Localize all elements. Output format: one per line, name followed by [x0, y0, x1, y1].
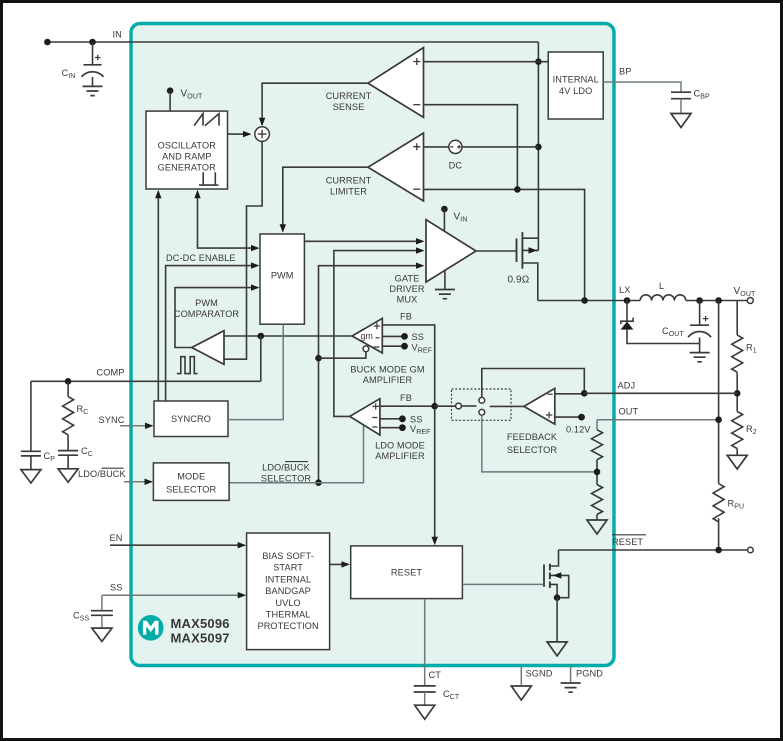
op-amp LDO mode amplifier — [350, 399, 380, 435]
node 0.12V terminal — [578, 414, 585, 421]
wire RC to CC — [67, 435, 69, 451]
wire switch lower throw to divider tap — [482, 415, 597, 472]
svg-text:LDO/BUCK: LDO/BUCK — [78, 469, 127, 479]
svg-text:CURRENT: CURRENT — [326, 91, 372, 101]
wire COMP riser — [260, 336, 262, 381]
terminal VOUT — [747, 298, 753, 304]
arrow into PWM top — [280, 224, 286, 233]
svg-text:LDO MODE: LDO MODE — [375, 441, 425, 451]
svg-text:RESET: RESET — [391, 568, 422, 578]
node CS-/CL- junction — [514, 186, 521, 193]
svg-text:THERMAL: THERMAL — [266, 610, 311, 620]
svg-text:0.12V: 0.12V — [566, 425, 591, 435]
wire CIN stem — [92, 42, 94, 64]
wire adder output to PWM comparator — [224, 141, 262, 359]
svg-text:SS: SS — [110, 583, 122, 593]
wire divider middle — [596, 460, 598, 485]
resistor R1 — [732, 335, 743, 372]
capacitor CP — [21, 451, 55, 470]
wire IN vertical to FET drain — [536, 42, 538, 250]
node SS terminal ldo — [399, 415, 406, 422]
wire RPU to RESET line — [718, 518, 720, 550]
block SYNCRO — [154, 401, 228, 437]
ground CC triangle — [58, 469, 78, 482]
svg-text:SS: SS — [412, 332, 424, 342]
node ADJ/R1/R2 tap — [734, 390, 741, 397]
svg-text:UVLO: UVLO — [275, 598, 300, 608]
svg-text:AMPLIFIER: AMPLIFIER — [375, 451, 425, 461]
adder node — [255, 127, 270, 142]
ground CSS triangle — [92, 628, 112, 641]
svg-text:PGND: PGND — [576, 669, 603, 679]
diode D1 schottky — [621, 318, 700, 344]
block RESET — [351, 546, 463, 599]
arrow PWM input 2 — [251, 262, 260, 268]
block oscillator and ramp generator — [146, 111, 228, 189]
icon pulse waveform at comparator — [177, 357, 198, 374]
wire OSC output to adder — [228, 133, 250, 135]
arrow into oscillator 2 — [194, 190, 200, 199]
circle gm enable bubble — [363, 346, 369, 352]
wire SS pin — [102, 595, 242, 611]
block MODE SELECTOR — [153, 463, 229, 501]
arrow into RESET left — [342, 561, 351, 567]
svg-text:MUX: MUX — [397, 295, 418, 305]
svg-text:SENSE: SENSE — [333, 102, 365, 112]
svg-text:START: START — [273, 563, 303, 573]
wire LDO SS stub — [380, 418, 403, 420]
wire diode stem — [626, 301, 628, 322]
arrow into adder top — [259, 118, 265, 127]
capacitor COUT — [662, 301, 711, 353]
svg-text:LIMITER: LIMITER — [330, 187, 367, 197]
wire LDO FB input — [380, 405, 435, 407]
node IN/DC junction — [535, 144, 542, 151]
wire feedback selector output — [490, 405, 524, 407]
ground SGND triangle — [511, 686, 531, 700]
IC body MAX5096/MAX5097 — [131, 24, 614, 666]
wire current limiter - input — [424, 189, 585, 300]
wire CT pin — [424, 599, 426, 686]
wire FBsel plus input to 0.12V — [555, 416, 582, 418]
ground COUT — [690, 353, 710, 362]
op-amp feedback selector — [524, 388, 555, 424]
svg-text:OUT: OUT — [619, 407, 639, 417]
svg-text:SYNC: SYNC — [99, 415, 125, 425]
capacitor CC — [58, 446, 93, 469]
svg-text:BANDGAP: BANDGAP — [265, 586, 311, 596]
wire gm FB input — [382, 325, 434, 543]
svg-text:PWM: PWM — [271, 271, 294, 281]
wire DC-DC enable — [166, 266, 256, 401]
wire mux ground stem — [444, 271, 446, 290]
svg-text:FB: FB — [400, 312, 412, 322]
arrow PWM input 1 — [251, 245, 260, 251]
wire R2 to ground — [736, 449, 738, 456]
arrow EN into BIAS — [238, 542, 247, 548]
source DC offset — [449, 140, 463, 170]
block bias soft-start — [247, 533, 330, 650]
svg-text:FEEDBACK: FEEDBACK — [507, 432, 558, 442]
wire COMP line — [31, 380, 261, 382]
svg-text:SELECTOR: SELECTOR — [261, 474, 311, 484]
wire bias to reset — [330, 563, 346, 565]
ground R2 triangle — [727, 455, 747, 469]
ground CIN — [83, 86, 103, 95]
capacitor CCT — [414, 686, 460, 705]
svg-text:INTERNAL: INTERNAL — [265, 574, 311, 584]
wire PWM comparator output to PWM — [175, 288, 256, 348]
wire current limiter + to DC source — [424, 146, 449, 148]
wire current limiter output to PWM — [283, 167, 368, 228]
node ADJ internal junction — [581, 390, 588, 397]
wire DC source to IN vertical — [462, 146, 538, 148]
svg-text:SS: SS — [410, 415, 422, 425]
wire Q2 source to ground — [556, 598, 558, 642]
op-amp current limiter — [368, 133, 424, 201]
node FB junction — [431, 403, 438, 410]
wire OUT line — [597, 419, 719, 421]
wire SGND stub — [520, 666, 522, 685]
node LX/CL junction — [581, 297, 588, 304]
svg-text:MAX5096: MAX5096 — [171, 616, 230, 631]
transistor Q1 power MOSFET 0.9ohm — [517, 232, 539, 300]
terminal RESET — [748, 547, 754, 553]
arrow into SYNCRO — [145, 423, 154, 429]
wire current sense - input — [424, 105, 518, 190]
node IN left terminal — [44, 39, 51, 46]
node COMP junction — [65, 378, 72, 385]
arrow into adder left — [243, 131, 252, 137]
arrow into MODE SELECTOR — [145, 479, 154, 485]
svg-text:COMP: COMP — [97, 368, 125, 378]
comparator PWM — [192, 331, 224, 365]
ground CP triangle — [21, 470, 41, 483]
svg-text:LX: LX — [619, 285, 630, 295]
resistor divider lower — [592, 485, 603, 515]
node RESET/RPU junction — [715, 547, 722, 554]
wire FBsel minus input — [555, 393, 585, 395]
wire mode select riser to mux — [319, 266, 421, 483]
wire gm enable stub — [319, 352, 366, 359]
wire mux output to FET gate — [476, 250, 516, 252]
wire current sense output to adder — [262, 83, 368, 125]
svg-text:SGND: SGND — [526, 669, 553, 679]
wire CP branch — [30, 381, 32, 451]
svg-text:CT: CT — [429, 670, 442, 680]
wire LDO amp output to mux — [334, 251, 421, 417]
node VIN dot — [441, 206, 448, 213]
block PWM — [260, 234, 304, 324]
node mode/gm-enable junction — [315, 355, 322, 362]
wire LX line — [538, 300, 748, 302]
op-amp current sense — [368, 48, 424, 118]
wire LDO VREF stub — [380, 427, 403, 429]
arrow PWM input 3 — [251, 284, 260, 290]
wire VOUT stem — [169, 91, 171, 111]
block internal 4V LDO — [548, 52, 603, 119]
svg-text:SELECTOR: SELECTOR — [507, 445, 557, 455]
svg-text:GENERATOR: GENERATOR — [158, 163, 217, 173]
node SS terminal buck — [401, 333, 408, 340]
wire BP pin — [603, 82, 681, 92]
label LDO/BUCK pin — [78, 468, 127, 479]
wire gm VREF stub — [382, 345, 404, 347]
svg-text:FB: FB — [400, 393, 412, 403]
wire EN pin — [110, 544, 242, 546]
label RESET pin — [612, 535, 646, 547]
wire gm output / comparator + input — [224, 335, 352, 337]
node OUT junction — [715, 416, 722, 423]
resistor RC — [63, 397, 74, 435]
svg-text:MAX5097: MAX5097 — [171, 630, 230, 645]
svg-text:DRIVER: DRIVER — [389, 284, 425, 294]
wire RESET line — [559, 549, 748, 551]
wire OSC input 2 / PWM input 1 — [198, 193, 256, 249]
label LDO/BUCK SELECTOR internal — [261, 462, 311, 484]
svg-text:gm: gm — [361, 331, 373, 341]
transistor Q2 reset MOSFET — [544, 550, 569, 598]
node VOUT dot at oscillator — [167, 87, 174, 94]
wire SYNCRO output to PWM bottom — [228, 324, 283, 419]
svg-text:PWM: PWM — [195, 298, 218, 308]
wire current sense + input — [424, 61, 539, 63]
wire ADJ line — [584, 392, 737, 394]
svg-text:INTERNAL: INTERNAL — [553, 75, 599, 85]
svg-text:OSCILLATOR: OSCILLATOR — [158, 141, 217, 151]
svg-text:0.9Ω: 0.9Ω — [508, 275, 530, 286]
wire internal divider from OUT — [596, 420, 598, 430]
svg-text:CURRENT: CURRENT — [326, 176, 372, 186]
capacitor CSS — [73, 611, 113, 629]
svg-text:DC-DC ENABLE: DC-DC ENABLE — [166, 253, 236, 263]
icon sawtooth waveform — [194, 114, 219, 126]
op-amp gate driver mux — [426, 220, 476, 282]
arrow SS into BIAS — [238, 592, 247, 598]
svg-text:SYNCRO: SYNCRO — [171, 414, 211, 424]
resistor RPU — [713, 484, 724, 522]
logo Maxim — [138, 615, 164, 641]
ground gate driver mux — [435, 290, 455, 299]
svg-text:LDO/BUCK: LDO/BUCK — [262, 463, 311, 473]
resistor R2 — [732, 412, 743, 449]
switch feedback selector — [435, 389, 511, 420]
arrow mux input 3 — [416, 263, 425, 269]
wire gm SS stub — [382, 335, 404, 337]
svg-text:BP: BP — [619, 67, 631, 77]
svg-text:BIAS SOFT-: BIAS SOFT- — [262, 551, 314, 561]
wire SYNC pin — [120, 425, 149, 427]
node Q2 source junction — [554, 594, 561, 601]
wire to internal LDO — [538, 61, 548, 63]
node mode line junction — [315, 479, 322, 486]
resistor divider upper — [592, 430, 603, 460]
arrow FB into RESET — [432, 537, 438, 546]
capacitor CIN — [62, 55, 104, 87]
wire RESET output to Q2 gate — [462, 583, 543, 585]
wire VOUT rail to OUT and RPU — [718, 301, 720, 484]
capacitor CBP — [671, 89, 710, 114]
svg-text:SELECTOR: SELECTOR — [166, 485, 216, 495]
wire VIN stem — [443, 209, 445, 231]
svg-text:4V LDO: 4V LDO — [559, 86, 592, 96]
inductor L — [640, 295, 686, 301]
wire R1 to ADJ tap — [736, 372, 738, 411]
node VREF terminal buck — [401, 343, 408, 350]
node divider tap — [594, 469, 601, 476]
node COMP vertical junction — [258, 333, 265, 340]
ground divider triangle — [587, 520, 607, 534]
arrow mux input 2 — [416, 247, 425, 253]
svg-text:COMPARATOR: COMPARATOR — [174, 309, 240, 319]
op-amp buck mode gm amplifier — [352, 318, 382, 353]
svg-text:BUCK MODE GM: BUCK MODE GM — [350, 365, 424, 375]
wire switch upper throw to ADJ — [482, 369, 585, 398]
ground CCT triangle — [415, 705, 435, 719]
wire IN rail — [47, 41, 538, 43]
node diode junction — [624, 297, 631, 304]
svg-text:EN: EN — [110, 533, 123, 543]
svg-text:AND RAMP: AND RAMP — [162, 152, 211, 162]
ground CBP triangle — [671, 114, 691, 128]
svg-text:GATE: GATE — [395, 274, 420, 284]
node VREF terminal ldo — [399, 424, 406, 431]
wire divider to ground — [596, 515, 598, 521]
node COUT junction — [696, 297, 703, 304]
svg-text:MODE: MODE — [177, 472, 205, 482]
svg-text:DC: DC — [449, 161, 463, 171]
wire RC branch — [67, 381, 69, 396]
svg-text:L: L — [659, 281, 664, 291]
wire R1 stem — [736, 301, 738, 336]
wire OSC input 1 from SYNCRO — [157, 193, 159, 402]
wire PGND stub — [570, 666, 572, 683]
node CIN junction — [89, 39, 96, 46]
node VOUT rail junction — [715, 297, 722, 304]
svg-text:RESET: RESET — [612, 537, 643, 547]
icon pulse waveform in oscillator — [199, 172, 218, 185]
ground Q2 triangle — [547, 642, 567, 656]
ground PGND — [561, 683, 581, 692]
arrow mux input 1 — [416, 238, 425, 244]
wire LDO/BUCK pin — [124, 481, 148, 483]
svg-text:ADJ: ADJ — [618, 381, 636, 391]
arrow into oscillator 1 — [155, 190, 161, 199]
svg-text:AMPLIFIER: AMPLIFIER — [363, 375, 413, 385]
svg-text:PROTECTION: PROTECTION — [257, 621, 318, 631]
node IN/LDO junction — [535, 58, 542, 65]
svg-text:IN: IN — [113, 30, 122, 40]
wire mode selector output — [229, 425, 363, 483]
wire PWM output to mux — [304, 240, 420, 242]
